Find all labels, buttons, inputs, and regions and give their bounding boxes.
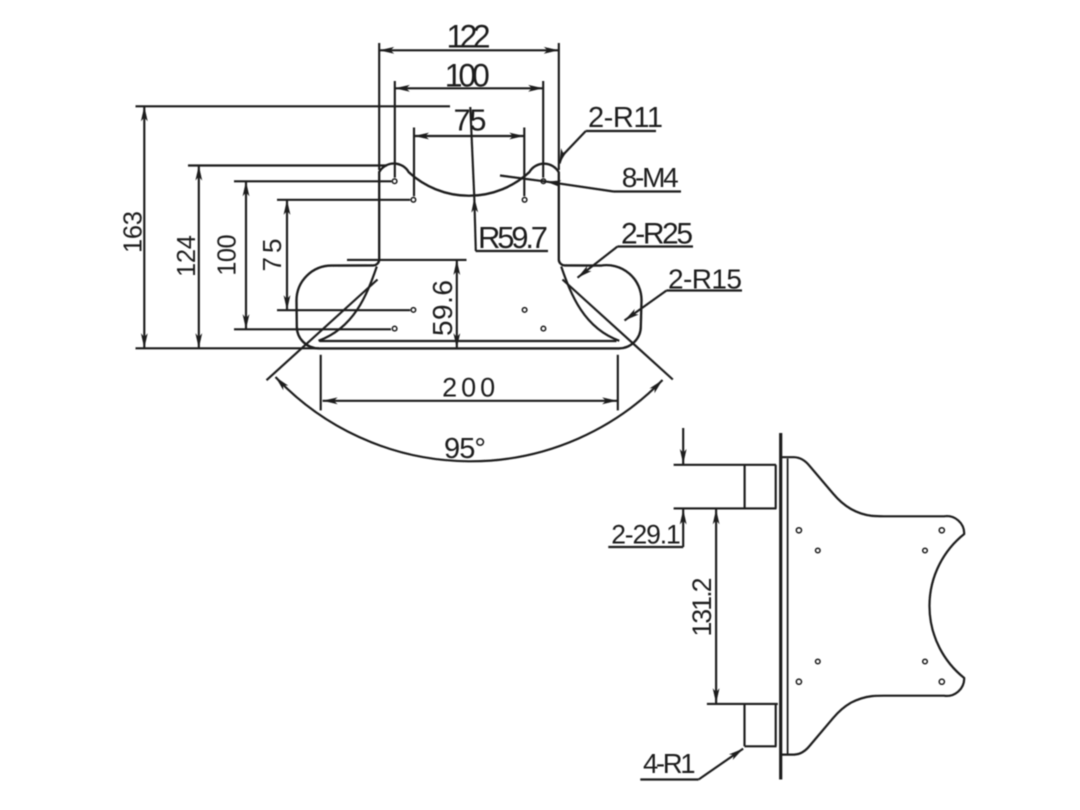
- svg-text:75: 75: [454, 103, 487, 138]
- svg-text:2-R11: 2-R11: [588, 102, 663, 134]
- svg-text:4-R1: 4-R1: [643, 748, 696, 779]
- svg-text:2-29.1: 2-29.1: [611, 520, 681, 550]
- svg-text:2-R15: 2-R15: [668, 264, 742, 295]
- svg-text:R59.7: R59.7: [478, 220, 548, 255]
- svg-text:8-M4: 8-M4: [622, 162, 679, 193]
- svg-text:122: 122: [447, 19, 491, 55]
- svg-text:100: 100: [214, 234, 242, 276]
- svg-text:59.6: 59.6: [427, 280, 458, 336]
- svg-text:2-R25: 2-R25: [621, 218, 693, 251]
- svg-text:163: 163: [120, 211, 148, 253]
- svg-text:200: 200: [442, 372, 495, 402]
- svg-text:100: 100: [445, 58, 490, 94]
- svg-text:124: 124: [173, 235, 201, 277]
- svg-text:95°: 95°: [444, 433, 486, 465]
- svg-text:75: 75: [257, 239, 287, 272]
- svg-text:131.2: 131.2: [687, 578, 717, 637]
